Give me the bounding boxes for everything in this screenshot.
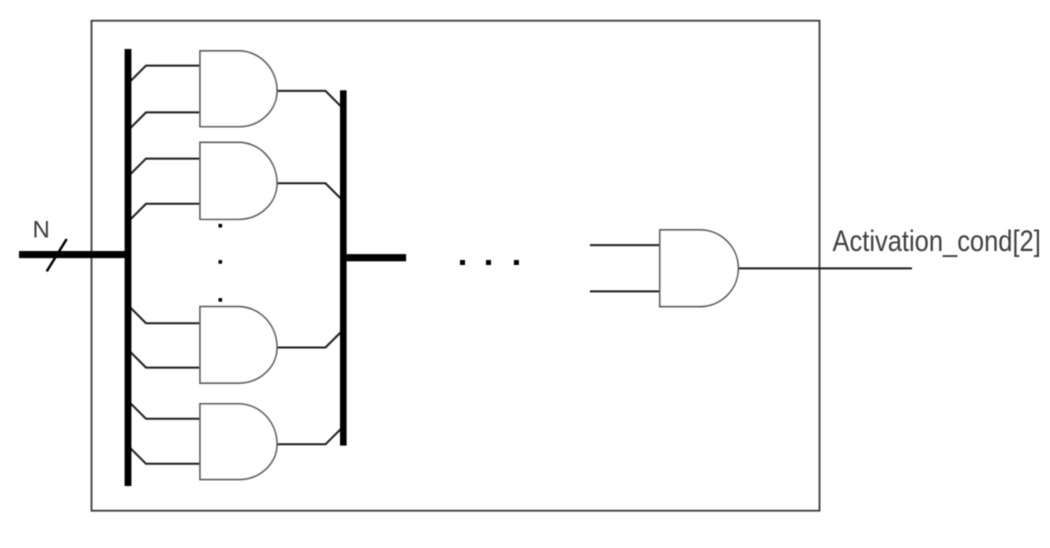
- svg-text:N: N: [33, 216, 50, 243]
- svg-text:Activation_cond[2]: Activation_cond[2]: [833, 224, 1041, 257]
